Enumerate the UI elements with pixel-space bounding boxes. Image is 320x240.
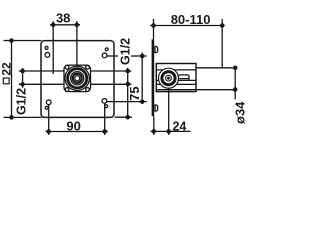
svg-text:38: 38 — [56, 10, 70, 25]
svg-text:G1/2: G1/2 — [14, 88, 28, 115]
svg-text:75: 75 — [127, 86, 142, 100]
svg-text:24: 24 — [172, 119, 186, 133]
svg-text:22: 22 — [0, 62, 13, 76]
svg-text:ø34: ø34 — [233, 101, 247, 124]
svg-text:80-110: 80-110 — [171, 12, 211, 27]
svg-text:90: 90 — [66, 118, 80, 133]
svg-text:G1/2: G1/2 — [119, 38, 133, 65]
